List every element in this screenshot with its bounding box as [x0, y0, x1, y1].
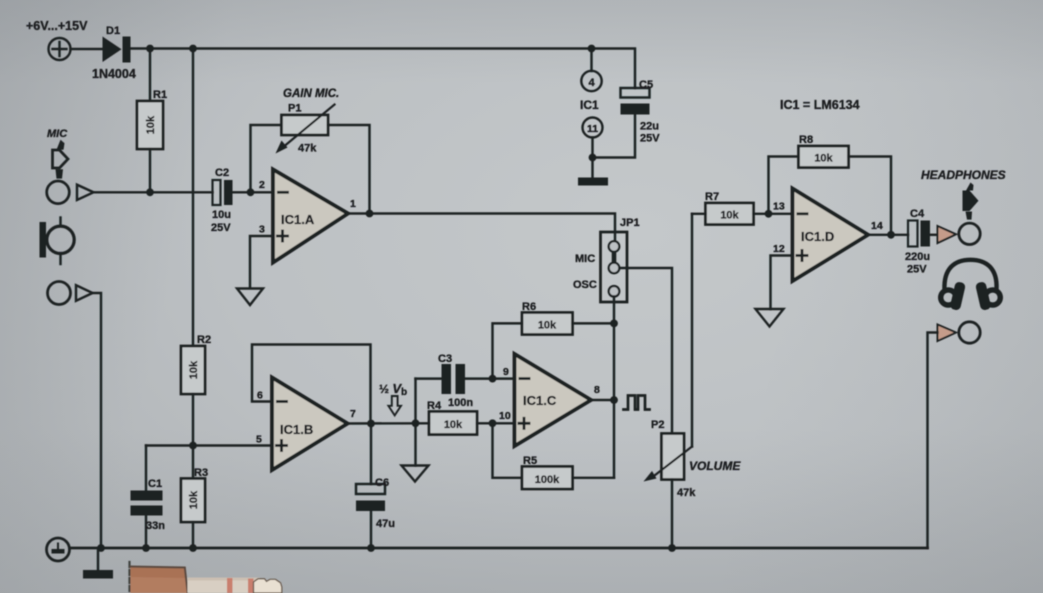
IC1 pin 11 circle: [583, 118, 603, 158]
node IC1.C output: [610, 396, 618, 404]
svg-text:OSC: OSC: [573, 279, 597, 291]
svg-text:10k: 10k: [188, 490, 200, 509]
wire JP1 osc down: [613, 297, 615, 478]
svg-text:R5: R5: [523, 455, 537, 467]
svg-text:10: 10: [499, 410, 511, 422]
wire pin12 to ground: [771, 256, 793, 310]
ground IC1.D: [756, 309, 784, 327]
microphone symbol: [40, 218, 75, 265]
wire IC1.A output to JP1: [348, 214, 615, 242]
wire R4 right to pin10: [477, 422, 515, 424]
wire terminal 2 to ground rail: [928, 333, 938, 549]
jumper JP1: [601, 232, 628, 302]
supply plus terminal: [49, 38, 71, 60]
wire R8 right to output: [849, 157, 892, 235]
supply minus terminal: [47, 538, 70, 561]
wire pin3 to ground: [250, 236, 273, 288]
node output D: [887, 231, 895, 239]
svg-text:C1: C1: [148, 478, 162, 490]
wire IC1.D output to C4: [868, 234, 908, 236]
svg-text:P1: P1: [288, 103, 301, 115]
op-amp IC1.D: [793, 189, 869, 282]
node half-Vb: [412, 419, 420, 427]
node top rail / R2: [189, 45, 197, 53]
node top rail / R1: [146, 45, 154, 53]
node rail / R3: [189, 544, 197, 552]
svg-text:MIC: MIC: [47, 128, 68, 140]
svg-text:R3: R3: [194, 467, 208, 479]
wire pin6 feedback: [252, 345, 371, 424]
wire P2 wiper to R7: [691, 214, 693, 447]
svg-text:C6: C6: [375, 477, 389, 489]
resistor R7: [706, 203, 754, 225]
wire R5 right: [573, 477, 615, 479]
wire R7 right to pin13: [754, 213, 793, 215]
wire rail to R2 (bias divider): [192, 49, 194, 347]
wire R1 to mic line: [149, 149, 151, 192]
potentiometer P2 47k: [644, 434, 693, 482]
wire pin10 to R5: [493, 423, 523, 478]
wire C4 to jack: [930, 234, 938, 236]
node mic line / R1: [146, 188, 154, 196]
svg-text:R4: R4: [427, 400, 442, 412]
svg-text:3: 3: [259, 224, 265, 236]
wire C2 to IC1.A pin2: [233, 191, 274, 193]
wire R3 to rail: [192, 522, 194, 548]
svg-text:2: 2: [259, 179, 265, 191]
svg-text:8: 8: [594, 384, 600, 396]
svg-text:22u: 22u: [640, 121, 659, 133]
wire JP1 common to P2: [620, 268, 673, 434]
svg-text:100k: 100k: [535, 474, 560, 486]
potentiometer P1 47k: [276, 105, 335, 154]
node rail / P2: [668, 544, 676, 552]
wire IC1.B output: [348, 422, 430, 425]
svg-text:13: 13: [773, 201, 785, 213]
arrow into mic line: [77, 185, 94, 200]
node pin9: [489, 375, 497, 383]
svg-text:10k: 10k: [188, 360, 200, 379]
op-amp IC1.B: [272, 378, 348, 471]
node pin11 / C5 ground: [589, 154, 597, 162]
svg-text:220u: 220u: [905, 251, 930, 263]
svg-text:C2: C2: [215, 167, 229, 179]
node rail / C6: [367, 544, 375, 552]
svg-text:47u: 47u: [376, 518, 395, 530]
wire R6 right: [573, 322, 615, 324]
wire node to P1 left: [251, 125, 282, 192]
svg-text:C3: C3: [438, 353, 452, 365]
svg-text:10k: 10k: [538, 320, 557, 332]
svg-text:IC1.B: IC1.B: [280, 422, 313, 437]
node output A / P1: [366, 210, 374, 218]
arrow mic terminal 2: [76, 285, 93, 301]
mic terminal 1: [47, 181, 70, 204]
svg-text:10k: 10k: [145, 115, 157, 134]
resistor R4: [429, 412, 477, 435]
wire P1 right to output node: [328, 125, 370, 214]
node bias divider: [189, 442, 197, 450]
svg-text:GAIN MIC.: GAIN MIC.: [283, 88, 339, 100]
svg-text:C5: C5: [639, 79, 653, 91]
svg-text:11: 11: [587, 123, 598, 135]
op-amp IC1.A: [273, 170, 348, 263]
svg-text:47k: 47k: [298, 143, 317, 155]
svg-text:9: 9: [503, 366, 509, 378]
svg-text:47k: 47k: [677, 487, 696, 499]
wire IC1.C output: [591, 399, 614, 401]
svg-text:10k: 10k: [720, 210, 739, 222]
svg-text:IC1: IC1: [580, 98, 599, 112]
svg-text:IC1.C: IC1.C: [523, 393, 557, 408]
label half Vb: [379, 381, 407, 415]
svg-text:5: 5: [256, 434, 262, 446]
svg-text:P2: P2: [651, 419, 664, 431]
svg-text:R6: R6: [522, 301, 536, 313]
wire R2 to node: [192, 394, 194, 479]
capacitor C6: [356, 424, 385, 549]
headphones icon: [941, 260, 1001, 311]
resistor R2: [181, 346, 205, 394]
svg-text:IC1.A: IC1.A: [281, 212, 315, 227]
wire rail to R1: [149, 49, 151, 102]
capacitor C5: [621, 88, 650, 115]
resistor R8: [799, 146, 849, 168]
svg-text:25V: 25V: [211, 222, 231, 234]
svg-text:R1: R1: [153, 89, 167, 101]
resistor R5: [522, 467, 573, 490]
resistor R1: [137, 101, 163, 149]
svg-text:D1: D1: [106, 25, 120, 37]
svg-text:IC1 = LM6134: IC1 = LM6134: [780, 98, 860, 112]
svg-text:C4: C4: [910, 208, 925, 220]
wire node to pin5 and C1: [146, 444, 272, 446]
capacitor C1: [131, 446, 163, 549]
svg-text:12: 12: [773, 243, 785, 255]
wire mic terminal 2 to ground rail: [93, 293, 102, 548]
diode D1: [103, 37, 131, 63]
svg-text:10k: 10k: [814, 153, 833, 165]
ground below half-Vb: [402, 423, 429, 481]
svg-text:IC1.D: IC1.D: [801, 229, 834, 244]
wire R6 left to pin9: [493, 323, 523, 378]
node rail / mic2: [97, 544, 105, 552]
ground bar at C5: [578, 158, 608, 186]
wire R7 left: [692, 213, 706, 215]
mic terminal 2: [48, 282, 71, 305]
wire mic line: [94, 191, 213, 193]
svg-text:100n: 100n: [448, 397, 473, 409]
ground IC1.A: [237, 289, 263, 306]
wire C3 line: [416, 377, 515, 379]
jack plug triangle bottom: [938, 325, 957, 342]
op-amp IC1.C: [515, 354, 592, 446]
capacitor C3: [442, 364, 466, 394]
svg-text:10k: 10k: [444, 419, 463, 431]
node R6 right: [610, 320, 618, 328]
svg-text:VOLUME: VOLUME: [689, 459, 741, 473]
svg-text:4: 4: [588, 77, 595, 89]
svg-text:7: 7: [350, 408, 356, 420]
node pin10: [489, 419, 497, 427]
svg-text:1N4004: 1N4004: [92, 67, 136, 81]
wire node to C5 bottom: [593, 115, 636, 158]
photo jack plug bottom: [130, 562, 282, 593]
node pin13: [765, 210, 773, 218]
svg-text:MIC: MIC: [575, 253, 595, 265]
headphone terminal 2: [959, 322, 980, 343]
mic input direction arrow: [53, 140, 69, 179]
wire supply to D1: [71, 48, 103, 50]
svg-text:33n: 33n: [146, 520, 165, 532]
wire C3 branch down: [414, 379, 416, 424]
svg-text:JP1: JP1: [620, 217, 640, 229]
headphone terminal 1: [959, 223, 980, 244]
ground bar bottom left: [83, 548, 113, 579]
IC1 pin 4 circle: [581, 49, 601, 92]
wire feedback to R8: [769, 157, 799, 214]
node pin2 / P1: [247, 188, 255, 196]
svg-text:25V: 25V: [907, 264, 927, 276]
svg-text:R7: R7: [705, 191, 719, 203]
svg-text:10u: 10u: [212, 209, 231, 221]
wire P2 bottom to rail: [671, 480, 673, 549]
svg-text:25V: 25V: [640, 133, 660, 145]
svg-text:R2: R2: [197, 334, 211, 346]
svg-text:14: 14: [871, 220, 883, 232]
resistor R3: [181, 479, 205, 523]
svg-text:+6V...+15V: +6V...+15V: [26, 19, 88, 33]
square wave symbol: [624, 396, 650, 410]
jack plug triangle top: [938, 226, 957, 243]
node rail / C1: [142, 544, 150, 552]
ground rail: [70, 547, 928, 550]
svg-text:HEADPHONES: HEADPHONES: [921, 168, 1006, 182]
capacitor C2: [213, 180, 233, 205]
wire top supply rail: [131, 49, 636, 89]
capacitor C4: [908, 221, 930, 247]
svg-text:R8: R8: [799, 134, 813, 146]
node top rail / IC1 pin4: [588, 45, 596, 53]
headphones out arrow: [963, 183, 979, 220]
svg-text:1: 1: [350, 198, 356, 210]
resistor R6: [522, 313, 573, 335]
node output B: [367, 420, 375, 428]
svg-text:6: 6: [257, 390, 263, 402]
